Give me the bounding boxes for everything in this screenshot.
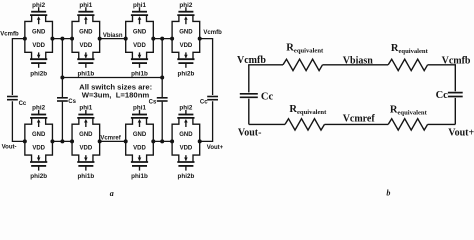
wire: b right vertical below cap: [454, 98, 456, 125]
junction on link line right: [160, 76, 164, 80]
wire: b bottom-right segment: [428, 123, 456, 125]
svg-text:VDD: VDD: [80, 43, 93, 49]
svg-text:Vbiasn: Vbiasn: [343, 56, 373, 67]
svg-text:phi1b: phi1b: [131, 70, 148, 77]
svg-text:Cs: Cs: [68, 99, 76, 105]
svg-text:phi1b: phi1b: [131, 173, 148, 180]
svg-text:Vout-: Vout-: [2, 145, 17, 151]
wire: b bottom middle (Vcmref): [325, 123, 389, 125]
wire: top right to Cc right: [200, 39, 213, 95]
svg-text:Vout-: Vout-: [238, 127, 262, 138]
svg-text:VDD: VDD: [133, 43, 146, 49]
svg-text:GND: GND: [179, 132, 193, 138]
capacitor Cc (left): [7, 97, 18, 100]
wire: b left vertical upper: [248, 65, 250, 93]
wire: b top middle (Vbiasn): [323, 64, 389, 66]
switch S4 top row (phi2): [170, 7, 202, 68]
resistor R4 equivalent (bottom right): [388, 119, 427, 130]
svg-text:Cc: Cc: [436, 90, 449, 101]
resistor R3 equivalent (bottom left): [285, 119, 325, 130]
svg-text:Vout+: Vout+: [207, 145, 224, 151]
svg-text:GND: GND: [79, 29, 93, 35]
svg-text:VDD: VDD: [32, 146, 45, 152]
svg-text:b: b: [386, 189, 390, 197]
capacitor Cc (right): [207, 97, 218, 100]
svg-text:Cs: Cs: [149, 100, 157, 106]
resistor R1 equivalent (top left): [283, 59, 323, 70]
resistor R2 equivalent (top right): [388, 59, 427, 70]
svg-text:Cc: Cc: [261, 92, 274, 103]
wire: left Cc to Vout- node: [12, 101, 24, 141]
switch S3 top row (phi1): [124, 7, 156, 68]
svg-text:phi2: phi2: [179, 2, 192, 9]
wire: right Cs drop from top rail: [161, 39, 163, 98]
wire: b top-left segment: [248, 64, 283, 66]
wire: top Vbiasn segment: [100, 38, 127, 40]
svg-text:VDD: VDD: [80, 146, 93, 152]
svg-text:Vcmref: Vcmref: [343, 114, 376, 125]
wire: top between switch 3 and 4: [153, 38, 172, 40]
svg-text:Vcmfb: Vcmfb: [442, 56, 471, 67]
svg-text:phi1b: phi1b: [77, 70, 94, 77]
capacitor Cs (right): [157, 98, 168, 101]
wire: b bottom-left segment: [249, 123, 285, 125]
switch S6 bottom row (phi1): [70, 110, 102, 171]
wire: bottom between switch 3 and 4: [153, 140, 172, 142]
svg-text:Vbiasn: Vbiasn: [103, 33, 123, 39]
svg-text:phi2b: phi2b: [178, 173, 195, 180]
junction on link line left: [60, 76, 64, 80]
svg-text:GND: GND: [32, 132, 46, 138]
svg-text:VDD: VDD: [32, 43, 45, 49]
svg-text:phi2b: phi2b: [178, 70, 195, 77]
svg-text:Vcmfb: Vcmfb: [203, 30, 222, 36]
svg-text:phi1: phi1: [133, 2, 146, 9]
wire: horizontal link between Cs drops: [62, 77, 162, 79]
svg-text:phi2: phi2: [32, 2, 45, 9]
svg-text:phi1: phi1: [79, 2, 92, 9]
svg-text:phi2b: phi2b: [30, 173, 47, 180]
svg-text:phi2: phi2: [179, 105, 192, 112]
junction bottom wire at Cs drop left: [60, 139, 64, 143]
svg-text:VDD: VDD: [180, 146, 193, 152]
svg-text:GND: GND: [133, 29, 147, 35]
wire: top rail Vcmfb left segment: [12, 39, 24, 95]
svg-text:a: a: [110, 189, 114, 197]
svg-text:VDD: VDD: [133, 146, 146, 152]
junction top wire at Cs drop left: [60, 37, 64, 41]
switch S7 bottom row (phi1): [124, 110, 156, 171]
svg-text:Vcmfb: Vcmfb: [0, 31, 19, 37]
svg-text:W=3um, L=180nm: W=3um, L=180nm: [82, 91, 150, 100]
capacitor Cc (b right): [448, 92, 463, 94]
svg-text:GND: GND: [32, 29, 46, 35]
svg-text:phi1b: phi1b: [77, 173, 94, 180]
switch S5 bottom row (phi2): [23, 110, 55, 171]
wire: right Cs to bottom rail: [161, 102, 163, 142]
svg-text:Cc: Cc: [19, 101, 27, 107]
svg-text:Vout+: Vout+: [448, 127, 474, 138]
wire: bottom Vcmref segment: [100, 140, 127, 142]
switch S8 bottom row (phi2): [170, 110, 202, 171]
svg-text:phi2: phi2: [32, 105, 45, 112]
switch S1 top row (phi2): [23, 7, 55, 68]
capacitor Cs (left): [57, 98, 68, 101]
wire: b left vertical lower: [248, 99, 250, 125]
wire: right Cc down to Vout+ node: [200, 101, 213, 141]
svg-text:GND: GND: [79, 132, 93, 138]
junction bottom wire at Cs drop right: [160, 139, 164, 143]
capacitor Cc (b left): [240, 93, 258, 95]
svg-text:GND: GND: [133, 132, 147, 138]
svg-text:Vcmref: Vcmref: [100, 135, 121, 141]
switch S2 top row (phi1): [70, 7, 102, 68]
svg-text:Vcmfb: Vcmfb: [237, 55, 266, 66]
wire: b top-right segment with corner: [428, 65, 456, 91]
wire: top between switch 1 and 2: [53, 38, 72, 40]
wire: bottom between switch 1 and 2: [53, 140, 72, 142]
svg-text:phi2b: phi2b: [30, 70, 47, 77]
svg-text:phi1: phi1: [133, 105, 146, 112]
svg-text:GND: GND: [179, 29, 193, 35]
svg-text:Cc: Cc: [200, 100, 208, 106]
svg-text:phi1: phi1: [79, 105, 92, 112]
junction top wire at Cs drop right: [160, 37, 164, 41]
wire: left Cs to bottom rail: [61, 102, 63, 142]
svg-text:VDD: VDD: [180, 43, 193, 49]
wire: left Cs drop from top rail: [61, 39, 63, 98]
